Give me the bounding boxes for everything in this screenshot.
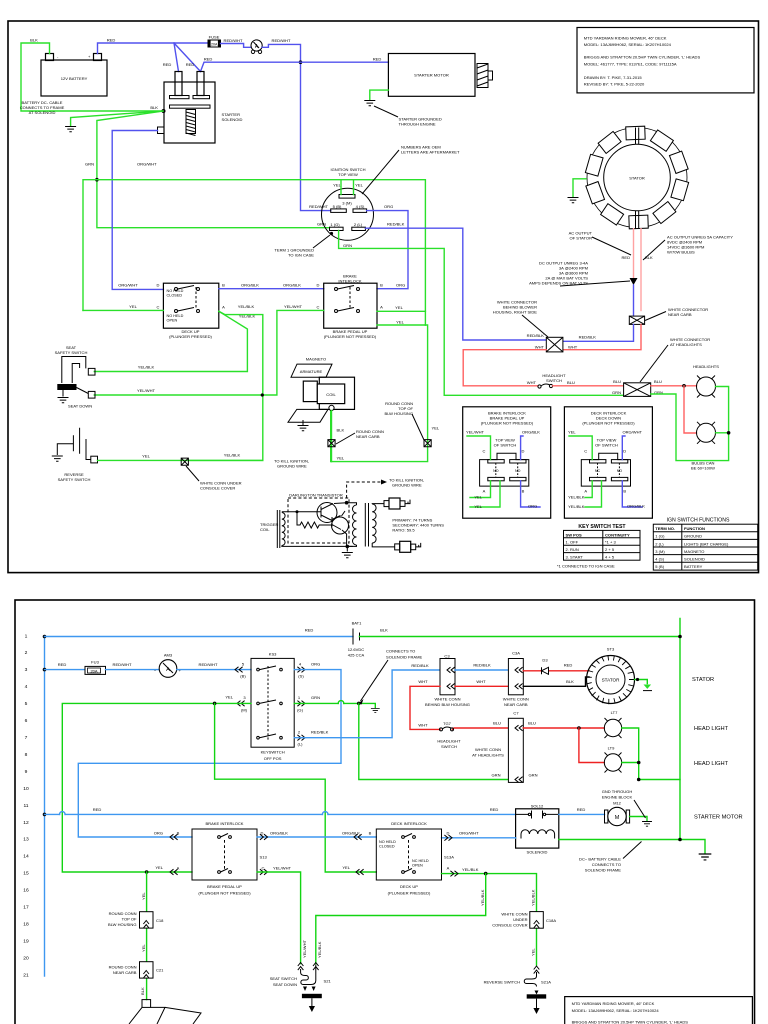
svg-text:A: A <box>380 304 383 309</box>
wire RED battery positive to fuse <box>98 43 209 54</box>
svg-text:TG7: TG7 <box>443 721 452 726</box>
svg-text:YEL: YEL <box>141 892 146 900</box>
chevron deck D out <box>444 835 452 841</box>
svg-text:SWITCH: SWITCH <box>441 744 457 749</box>
svg-text:RED: RED <box>93 807 102 812</box>
svg-text:YEL: YEL <box>395 305 403 310</box>
svg-text:D: D <box>157 283 160 288</box>
svg-text:BLW HOUSING: BLW HOUSING <box>385 411 413 416</box>
connector C3A <box>503 651 529 708</box>
starter motor M12 <box>605 801 630 826</box>
wire trigger bottom to ground junction <box>282 545 353 548</box>
svg-text:RED: RED <box>186 62 195 67</box>
svg-text:CONSOLE COVER: CONSOLE COVER <box>200 486 235 491</box>
svg-text:*1 + 3: *1 + 3 <box>605 540 616 545</box>
svg-text:NEAR CARB: NEAR CARB <box>668 312 692 317</box>
svg-text:YEL: YEL <box>474 494 482 499</box>
svg-text:1. OFF: 1. OFF <box>566 540 579 545</box>
svg-text:TERM NO.: TERM NO. <box>655 526 675 531</box>
arrow kill <box>381 480 387 485</box>
svg-text:REVISED BY: T. PIKE, 5-22-2020: REVISED BY: T. PIKE, 5-22-2020 <box>584 82 645 87</box>
svg-text:OF SWITCH: OF SWITCH <box>494 443 517 448</box>
left bus RED <box>44 637 46 977</box>
ground stator <box>568 198 579 203</box>
svg-text:STATOR: STATOR <box>692 677 714 683</box>
svg-text:WHT: WHT <box>418 723 428 728</box>
wire RED drop to solenoid posts <box>174 43 201 72</box>
panel border bottom <box>15 600 755 1024</box>
svg-text:2 + 5: 2 + 5 <box>605 547 615 552</box>
svg-text:CLOSED: CLOSED <box>167 293 183 297</box>
battery BAT1 <box>348 620 365 657</box>
svg-text:YEL/BLK: YEL/BLK <box>224 453 241 458</box>
connector C7 <box>472 711 523 783</box>
svg-text:YEL: YEL <box>342 865 350 870</box>
svg-text:1 (G): 1 (G) <box>655 534 665 539</box>
svg-text:SEAT DOWN: SEAT DOWN <box>68 404 92 409</box>
svg-text:BLK: BLK <box>150 105 158 110</box>
svg-text:(PLUNGER PRESSED): (PLUNGER PRESSED) <box>388 891 431 896</box>
battery 12V <box>41 54 107 97</box>
svg-text:YEL: YEL <box>432 426 440 431</box>
svg-text:NC HELD: NC HELD <box>412 859 429 863</box>
svg-text:GRN: GRN <box>612 390 621 395</box>
svg-text:FU3: FU3 <box>91 660 99 665</box>
chevron C3A top <box>515 667 523 673</box>
svg-text:ORG/WHT: ORG/WHT <box>622 429 642 434</box>
connector C3 <box>425 654 470 708</box>
svg-text:MTD YARDMAN RIDING MOWER, 46": MTD YARDMAN RIDING MOWER, 46" DECK <box>572 1001 655 1006</box>
svg-text:RED: RED <box>490 807 499 812</box>
wire ORG keyswitch S to brake B <box>78 670 341 837</box>
svg-text:YEL/BLK: YEL/BLK <box>317 941 322 958</box>
wire BLU to headlight 1 (red) <box>651 385 697 387</box>
svg-text:OPEN: OPEN <box>167 318 178 322</box>
ground solenoid frame <box>699 854 712 860</box>
svg-text:RED: RED <box>107 38 116 43</box>
svg-text:DRAWN BY: T. PIKE, 7-31-2015: DRAWN BY: T. PIKE, 7-31-2015 <box>584 75 643 80</box>
wire ammeter to keyswitch B <box>177 669 251 671</box>
solenoid SOL12 <box>516 804 559 855</box>
wire BLU switch to headlights conn (red) <box>553 385 624 387</box>
svg-text:C3: C3 <box>444 654 450 659</box>
svg-text:D: D <box>623 448 626 453</box>
svg-text:C: C <box>262 866 265 871</box>
svg-text:18: 18 <box>23 921 29 927</box>
wire stator ground <box>573 179 586 197</box>
junction lamp2 green <box>727 431 731 435</box>
svg-text:HEADLIGHT: HEADLIGHT <box>437 739 461 744</box>
reverse safety switch <box>57 428 97 482</box>
wire RED solenoid post to starter motor <box>201 62 389 71</box>
svg-text:RATIO: 59.5: RATIO: 59.5 <box>392 527 415 532</box>
wire BLK battery to right bus <box>360 619 681 840</box>
callout dc battery cable <box>623 842 642 859</box>
brake interlock test box <box>463 407 551 518</box>
svg-text:GRN: GRN <box>343 243 352 248</box>
chevron deck B <box>354 834 362 840</box>
svg-text:WHITE CONN: WHITE CONN <box>503 697 529 702</box>
svg-text:FUSE: FUSE <box>209 35 220 40</box>
starter solenoid <box>158 72 243 144</box>
dashed kill line to label <box>347 482 381 498</box>
svg-text:YEL/BLK: YEL/BLK <box>568 494 585 499</box>
junction GRN <box>357 702 361 706</box>
connector C18A <box>530 912 544 929</box>
chevron keyswitch B <box>235 667 243 673</box>
svg-text:C18: C18 <box>156 918 164 923</box>
svg-text:SW POS: SW POS <box>566 532 582 537</box>
svg-text:B: B <box>222 283 225 288</box>
svg-text:YEL: YEL <box>129 304 137 309</box>
chevron brake A <box>170 869 178 875</box>
wire GRN lamp2 tap <box>716 432 729 434</box>
headlight lamp 1 <box>693 364 719 398</box>
callout ac unreg <box>643 240 665 260</box>
svg-text:WHITE CONN: WHITE CONN <box>475 747 501 752</box>
svg-text:SOLENOID: SOLENOID <box>222 117 243 122</box>
wire YEL main horizontal <box>83 180 425 325</box>
connector white conn behind blower <box>546 337 563 352</box>
title block bottom <box>565 997 753 1024</box>
svg-text:YEL/BLK: YEL/BLK <box>480 889 485 906</box>
junction deck A split <box>484 872 488 876</box>
wire RED/WHT fuse to ammeter <box>221 44 252 48</box>
svg-text:BRIGGS AND STRATTON 20.5HP TWI: BRIGGS AND STRATTON 20.5HP TWIN CYLINDER… <box>572 1020 689 1024</box>
svg-text:(PLUNGER NOT PRESSED): (PLUNGER NOT PRESSED) <box>481 421 534 426</box>
wire YEL C18 chain <box>146 872 148 1000</box>
svg-text:YEL: YEL <box>355 183 363 188</box>
svg-text:15: 15 <box>23 871 29 877</box>
ign switch functions table <box>653 518 757 571</box>
ground M12 <box>642 822 652 827</box>
wire YEL brake lower to vertical <box>377 324 425 326</box>
svg-text:BLK: BLK <box>337 428 345 433</box>
svg-text:LT9: LT9 <box>608 746 615 751</box>
svg-text:TOP VIEW: TOP VIEW <box>338 172 358 177</box>
svg-text:YEL/BLK: YEL/BLK <box>238 304 255 309</box>
wire ORG/WHT test deck <box>622 436 625 460</box>
svg-text:OF SWITCH: OF SWITCH <box>595 443 618 448</box>
svg-text:KEY SWITCH TEST: KEY SWITCH TEST <box>578 524 626 530</box>
wire WHT conn to blower conn (red) <box>563 324 641 349</box>
svg-text:RED: RED <box>58 662 67 667</box>
svg-text:20: 20 <box>23 955 29 961</box>
svg-text:C: C <box>584 448 587 453</box>
svg-text:A: A <box>177 866 180 871</box>
svg-text:D: D <box>522 448 525 453</box>
darlington transistor dashed box <box>288 493 349 544</box>
svg-text:M: M <box>615 815 620 821</box>
ignition switch circle <box>322 167 374 240</box>
svg-text:YEL/BLK: YEL/BLK <box>531 889 536 906</box>
svg-text:YEL: YEL <box>568 429 576 434</box>
svg-text:BLK: BLK <box>140 987 145 995</box>
wire AC output right (pink) <box>640 229 642 311</box>
svg-text:C3A: C3A <box>512 651 520 656</box>
svg-text:11: 11 <box>23 803 28 809</box>
svg-text:12: 12 <box>23 820 29 826</box>
svg-text:GRN: GRN <box>492 773 501 778</box>
svg-text:ORG: ORG <box>384 204 393 209</box>
svg-text:S21: S21 <box>324 978 332 983</box>
svg-text:RED/BLK: RED/BLK <box>387 222 405 227</box>
svg-text:ORG/BLK: ORG/BLK <box>283 283 301 288</box>
svg-text:3 (M): 3 (M) <box>342 200 352 205</box>
svg-text:RED/BLK: RED/BLK <box>311 730 329 735</box>
ignition coil primary <box>353 505 357 545</box>
darlington internal wiring <box>282 504 341 530</box>
svg-text:D: D <box>447 831 450 836</box>
headlight switch TG7 <box>437 721 461 749</box>
ignition coil secondary <box>372 504 376 543</box>
junction BLK solenoid <box>162 109 166 113</box>
wire YEL/WHT test brake <box>467 436 491 460</box>
svg-text:4 (S): 4 (S) <box>356 204 365 209</box>
svg-text:D: D <box>317 283 320 288</box>
svg-text:WHT: WHT <box>527 380 537 385</box>
chevron deck C <box>356 869 364 875</box>
svg-text:GRN: GRN <box>529 773 538 778</box>
svg-text:WHT: WHT <box>418 679 428 684</box>
wire YEL/BLK deck A branch <box>442 874 537 965</box>
svg-text:4: 4 <box>25 684 28 690</box>
brake interlock box bottom <box>192 821 257 896</box>
connector white conn under console <box>181 458 188 465</box>
svg-text:ORG/WHT: ORG/WHT <box>459 831 479 836</box>
spark plug 2 <box>395 541 421 552</box>
svg-text:BRAKE PEDAL UP: BRAKE PEDAL UP <box>207 884 242 889</box>
callout round conn top of blw housing <box>412 414 424 440</box>
wire ORG/WHT deck D to SOL12 coil <box>442 837 516 839</box>
svg-text:HEAD LIGHT: HEAD LIGHT <box>694 726 729 732</box>
svg-text:STARTER MOTOR: STARTER MOTOR <box>694 815 743 821</box>
svg-text:SAFETY SWITCH: SAFETY SWITCH <box>55 350 88 355</box>
svg-text:12V BATTERY: 12V BATTERY <box>61 76 88 81</box>
callout ac output <box>592 237 631 255</box>
wire ORG/BLK test brake <box>521 436 523 460</box>
wire WHT red TG7 to C3 <box>410 686 440 729</box>
wire YEL/BLK test deck A1 <box>585 481 592 498</box>
svg-text:14: 14 <box>23 854 29 860</box>
svg-text:C: C <box>317 304 320 309</box>
svg-text:BLK: BLK <box>380 628 388 633</box>
svg-text:STARTER MOTOR: STARTER MOTOR <box>414 73 449 78</box>
deck interlock test box <box>564 407 652 518</box>
svg-text:RED/BLK: RED/BLK <box>579 335 597 340</box>
svg-text:NEAR CARB: NEAR CARB <box>113 970 137 975</box>
wire YEL branch to deck C <box>215 703 377 872</box>
svg-text:ORG/WHT: ORG/WHT <box>137 162 157 167</box>
starter motor box <box>388 54 492 97</box>
wire BLU TG7 to C7 <box>453 728 509 729</box>
svg-text:20A: 20A <box>211 43 218 47</box>
svg-text:DC− BATTERY CABLE: DC− BATTERY CABLE <box>579 857 621 862</box>
svg-text:6: 6 <box>25 718 28 724</box>
svg-text:3. START: 3. START <box>566 555 584 560</box>
svg-text:YEL: YEL <box>396 320 404 325</box>
svg-text:425 CCA: 425 CCA <box>348 653 365 658</box>
junction starter feed <box>299 60 303 64</box>
wire deck A to reverse switch line <box>188 311 263 460</box>
wire secondary to plug1 <box>372 503 384 505</box>
svg-text:HEADLIGHTS: HEADLIGHTS <box>693 364 719 369</box>
svg-text:NO HELD: NO HELD <box>167 314 184 318</box>
svg-text:CONNECTS TO: CONNECTS TO <box>592 862 621 867</box>
svg-text:A: A <box>222 304 225 309</box>
svg-text:MTD YARDMAN RIDING MOWER, 46": MTD YARDMAN RIDING MOWER, 46" DECK <box>584 36 667 41</box>
svg-text:YEL: YEL <box>141 944 146 952</box>
ammeter AM3 <box>154 653 182 678</box>
svg-text:1: 1 <box>25 633 28 639</box>
wire YEL keyswitch M to brake A <box>62 703 251 872</box>
svg-text:ROUND CONN: ROUND CONN <box>109 911 137 916</box>
svg-text:RED/WHT: RED/WHT <box>309 204 328 209</box>
svg-text:(B): (B) <box>240 674 246 679</box>
wire row1 RED to battery <box>45 636 354 638</box>
chevron keyswitch L <box>297 735 305 741</box>
callout connects to solenoid frame <box>361 660 389 701</box>
wire ORG test brake B <box>521 481 540 507</box>
wire YEL/BLK test deck A2 <box>585 481 602 507</box>
svg-text:B: B <box>522 488 525 493</box>
svg-text:A: A <box>584 488 587 493</box>
wire YEL vertical to kill line <box>331 325 428 462</box>
wire GRN C7 to bus <box>639 779 680 781</box>
wire BLK battery negative to solenoid junction <box>21 43 163 111</box>
svg-text:B: B <box>623 488 626 493</box>
svg-text:WHITE CONN: WHITE CONN <box>501 912 527 917</box>
wire ORG/WHT solenoid to deck interlock D <box>112 131 163 290</box>
svg-text:A: A <box>483 488 486 493</box>
resistor R base <box>297 512 333 528</box>
svg-text:BATTERY: BATTERY <box>684 564 703 569</box>
svg-text:B: B <box>380 283 383 288</box>
chevron brake C out <box>260 869 268 875</box>
chevron keyswitch S <box>297 667 305 673</box>
wire BLK C3A to stator <box>523 677 589 686</box>
callout gnd engine <box>634 800 646 818</box>
svg-text:NEAR CARB: NEAR CARB <box>504 702 528 707</box>
svg-text:3: 3 <box>25 667 28 673</box>
transistor Q2 <box>332 517 349 534</box>
wire YEL/WHT brake C to seat switch <box>257 872 301 964</box>
svg-text:COIL: COIL <box>326 392 336 397</box>
callout headlights conn <box>640 345 668 382</box>
svg-text:ORG/BLK: ORG/BLK <box>522 429 540 434</box>
svg-text:4 (S): 4 (S) <box>655 557 664 562</box>
svg-text:RED: RED <box>204 57 213 62</box>
wire BLK to frame ground <box>71 111 163 126</box>
wire ORG/BLK deck B to brake D <box>219 288 324 290</box>
svg-text:YEL: YEL <box>531 948 536 956</box>
svg-text:OPEN: OPEN <box>412 863 423 867</box>
wire RED/BLK C3 to C3A <box>455 669 508 671</box>
svg-text:1 (G): 1 (G) <box>330 222 340 227</box>
svg-text:YEL: YEL <box>337 456 345 461</box>
svg-text:LT7: LT7 <box>611 710 618 715</box>
wire GRN LT9 tap <box>622 762 639 764</box>
wire WHT C3 to C3A <box>455 685 508 687</box>
wire GRN junction to C7 <box>359 703 509 779</box>
junction C18 drop <box>145 870 149 874</box>
ground GRN hang <box>371 709 380 713</box>
svg-text:3 (M): 3 (M) <box>655 549 665 554</box>
svg-text:REVERSE SWITCH: REVERSE SWITCH <box>484 980 521 985</box>
svg-text:S13A: S13A <box>444 855 454 860</box>
transistor Q1 <box>317 503 337 523</box>
svg-text:ORG: ORG <box>528 503 537 508</box>
svg-text:DECK UP: DECK UP <box>400 884 418 889</box>
wire ORG ignition S to brake interlock B <box>367 211 408 289</box>
junction collector top <box>345 501 349 505</box>
wire GRN ignition G to headlight connector <box>339 230 624 395</box>
svg-text:YEL/WHT: YEL/WHT <box>466 429 485 434</box>
svg-text:YEL/WHT: YEL/WHT <box>302 939 307 958</box>
seat switch S21 <box>270 963 332 1013</box>
head light LT9 <box>604 746 621 773</box>
svg-text:BEHIND BLW HOUSING: BEHIND BLW HOUSING <box>425 702 470 707</box>
svg-text:C: C <box>483 448 486 453</box>
svg-text:19: 19 <box>23 938 29 944</box>
svg-text:IGN SWITCH FUNCTIONS: IGN SWITCH FUNCTIONS <box>667 518 730 524</box>
svg-text:W/70W BULBS: W/70W BULBS <box>667 250 695 255</box>
brake interlock switch box <box>324 274 377 340</box>
ground seat switch <box>58 398 69 403</box>
ignition coil core <box>365 503 368 547</box>
wire WHT blower conn to headlight switch (red) <box>463 350 546 386</box>
svg-text:HEAD LIGHT: HEAD LIGHT <box>694 761 729 767</box>
junction GRN-YEL tie <box>95 178 99 182</box>
wire BLU C7 to lamps <box>523 727 604 729</box>
svg-text:RED/WHT: RED/WHT <box>272 38 291 43</box>
wire YEL test brake A1 <box>470 481 491 498</box>
svg-text:WHITE CONN: WHITE CONN <box>434 697 460 702</box>
head light LT7 <box>604 710 621 738</box>
ground stator bottom <box>644 685 652 689</box>
svg-text:HOUSING, RIGHT SIDE: HOUSING, RIGHT SIDE <box>493 310 538 315</box>
svg-text:YEL/BLK: YEL/BLK <box>462 867 479 872</box>
svg-text:WHT: WHT <box>476 679 486 684</box>
svg-text:2. RUN: 2. RUN <box>566 547 579 552</box>
svg-text:ENGINE BLOCK: ENGINE BLOCK <box>602 795 633 800</box>
deck interlock switch box <box>163 283 218 339</box>
svg-text:TO IGN CASE: TO IGN CASE <box>288 253 314 258</box>
svg-text:SEAT SWITCH: SEAT SWITCH <box>270 976 297 981</box>
svg-text:BLW HOUSING: BLW HOUSING <box>108 922 136 927</box>
terminal box magneto <box>142 1000 151 1008</box>
svg-text:BLU: BLU <box>654 379 662 384</box>
svg-text:YEL: YEL <box>142 454 150 459</box>
svg-text:YEL/WHT: YEL/WHT <box>284 304 303 309</box>
wire GRN headlights return <box>651 387 729 461</box>
svg-text:13: 13 <box>23 837 29 843</box>
connector white conn at headlights <box>624 383 651 397</box>
wire RED/BLK keyswitch L to C3 <box>294 670 440 738</box>
svg-text:MODEL: 13AJ699H062, SERIAL: 1K: MODEL: 13AJ699H062, SERIAL: 1K207H10024 <box>572 1008 660 1013</box>
wire starter ground <box>370 90 389 99</box>
fuse FU3 20A <box>85 660 106 675</box>
svg-text:BLU: BLU <box>493 721 501 726</box>
reverse switch S21A <box>484 972 552 1014</box>
wire YEL brake A to vertical <box>377 310 425 312</box>
svg-text:(PLUNGER NOT PRESSED): (PLUNGER NOT PRESSED) <box>324 334 377 339</box>
svg-text:TOP OF: TOP OF <box>122 917 137 922</box>
svg-text:(G): (G) <box>297 707 303 712</box>
chevron reverse arrow <box>534 966 540 974</box>
chevron C3 top <box>447 667 455 673</box>
svg-text:CONTINUITY: CONTINUITY <box>605 532 630 537</box>
